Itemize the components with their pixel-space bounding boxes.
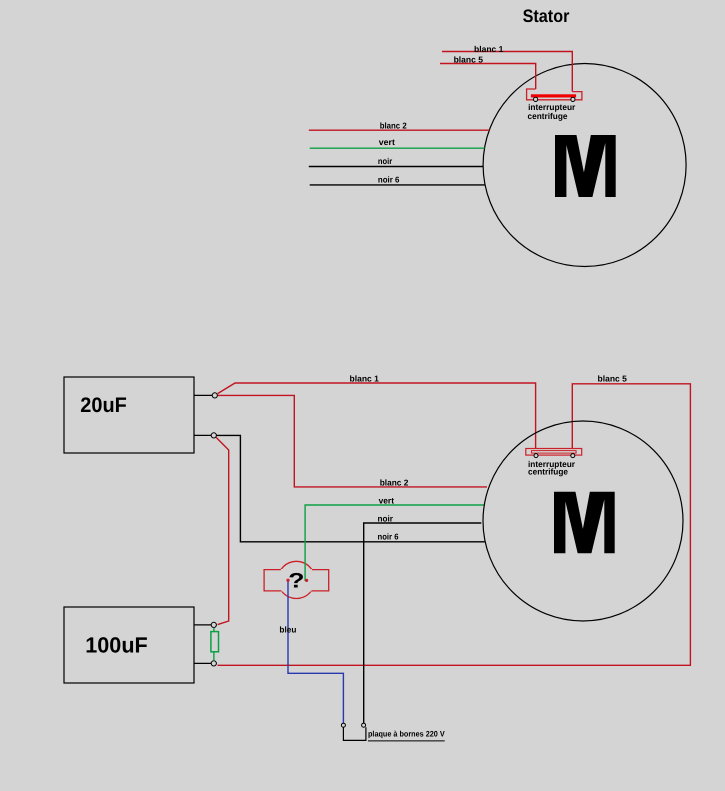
wire blanc 2 (top)	[309, 129, 490, 131]
20uF terminal stub top	[194, 394, 212, 396]
20uF terminal circle bottom	[211, 433, 216, 438]
100uF terminal stub bottom	[194, 662, 211, 664]
svg-text:20uF: 20uF	[80, 394, 127, 417]
motor M2 circle	[483, 421, 683, 621]
switch S1 left terminal	[534, 97, 538, 101]
wire noir (bottom)	[364, 523, 482, 723]
svg-text:vert: vert	[379, 137, 395, 147]
switch S2 right terminal	[571, 454, 575, 458]
svg-text:bleu: bleu	[279, 625, 296, 635]
starting resistor (green) lead top	[213, 628, 215, 632]
svg-text:vert: vert	[379, 495, 395, 505]
thermal protector right pin dot	[305, 579, 308, 582]
motor M1 circle	[483, 64, 686, 267]
svg-text:blanc 1: blanc 1	[474, 44, 504, 54]
wire blanc 2 (bottom)	[218, 395, 488, 487]
switch S2 left terminal	[534, 454, 538, 458]
svg-text:blanc 2: blanc 2	[380, 478, 409, 488]
motor M2 letter M	[554, 492, 615, 554]
thermal protector circle	[278, 561, 315, 598]
terminal block bracket	[343, 727, 366, 740]
switch S2 contact bar	[531, 451, 576, 454]
wire blanc 1 (bottom)	[218, 383, 536, 449]
svg-text:plaque à bornes 220 V: plaque à bornes 220 V	[368, 729, 445, 738]
svg-text:blanc 2: blanc 2	[380, 121, 407, 131]
svg-text:Stator: Stator	[523, 6, 570, 26]
centrifugal switch S1 bracket	[527, 89, 582, 100]
svg-text:noir 6: noir 6	[378, 174, 400, 184]
thermal protector body outline	[264, 570, 329, 591]
100uF terminal circle top	[211, 622, 216, 627]
wire vert (top)	[310, 147, 485, 149]
switch S1 contact bar	[531, 94, 576, 97]
terminal block right circle	[362, 723, 366, 727]
thermal protector body fill	[264, 569, 330, 592]
svg-text:noir: noir	[378, 156, 393, 166]
wire noir 6 (bottom)	[217, 435, 485, 541]
svg-text:blanc 1: blanc 1	[350, 373, 380, 383]
svg-text:?: ?	[288, 570, 304, 593]
terminal block left circle	[341, 723, 345, 727]
switch S1 right terminal	[571, 97, 575, 101]
svg-text:100uF: 100uF	[85, 632, 147, 657]
starting resistor (green) body	[211, 632, 219, 652]
svg-text:blanc 5: blanc 5	[598, 373, 628, 383]
100uF terminal stub top	[194, 624, 211, 626]
wire blanc 1 (top)	[442, 52, 572, 92]
thermal protector left pin dot	[286, 579, 289, 582]
svg-text:noir 6: noir 6	[378, 532, 399, 542]
capacitor 100uF box	[64, 607, 194, 683]
wire noir 6 (top)	[310, 184, 485, 186]
svg-text:blanc 5: blanc 5	[454, 55, 484, 65]
100uF terminal circle bottom	[211, 661, 216, 666]
wire vert (bottom)	[305, 505, 484, 581]
wire blanc 5 (bottom)	[218, 384, 691, 666]
capacitor 20uF box	[64, 377, 194, 453]
underline of plaque label	[368, 740, 445, 742]
red link 20uF bottom to 100uF top	[216, 437, 229, 624]
svg-text:centrifuge: centrifuge	[528, 111, 568, 121]
wire blanc 5 (top)	[440, 64, 536, 90]
wire noir (top)	[309, 166, 483, 168]
motor M1 letter M	[555, 135, 616, 198]
starting resistor (green) lead bottom	[213, 652, 215, 661]
centrifugal switch S2 body	[526, 449, 582, 456]
svg-text:centrifuge: centrifuge	[528, 467, 568, 477]
wire bleu	[288, 581, 343, 723]
svg-text:noir: noir	[378, 513, 394, 523]
20uF terminal stub bottom	[194, 434, 211, 436]
20uF terminal circle top	[212, 393, 217, 398]
